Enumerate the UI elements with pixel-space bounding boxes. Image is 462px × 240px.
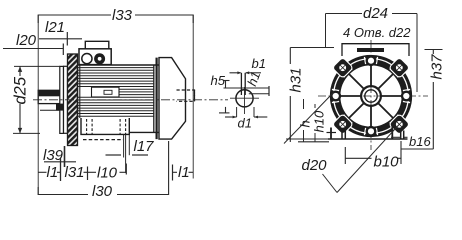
- extension line flange bottom: [64, 146, 66, 167]
- svg-text:b1: b1: [252, 56, 266, 71]
- cardinal hole bosses: [330, 55, 411, 136]
- dimension l33: [38, 7, 193, 24]
- flange plate: [68, 54, 78, 146]
- dimension b16: [391, 134, 433, 149]
- bolt ear top-left: [332, 57, 353, 78]
- h10 bottom tick: [298, 141, 329, 143]
- dimension l30: [38, 141, 168, 200]
- shaft: [38, 90, 63, 110]
- flange spigot (d25): [64, 66, 68, 133]
- extension line right (rear shaft tip): [192, 15, 194, 179]
- svg-text:4 Отв. d22: 4 Отв. d22: [343, 25, 411, 40]
- hub: [361, 86, 381, 106]
- dimension h1: [224, 69, 270, 96]
- svg-text:l31: l31: [65, 164, 85, 181]
- svg-text:h5: h5: [211, 73, 226, 88]
- svg-text:d25: d25: [12, 76, 30, 104]
- svg-text:l33: l33: [112, 7, 133, 24]
- svg-text:l30: l30: [92, 183, 113, 200]
- svg-text:l1: l1: [178, 164, 190, 181]
- rear shaft (hidden, dashed): [177, 90, 195, 101]
- dimension d20 diagonal: [302, 124, 400, 192]
- dimension h: [298, 99, 313, 142]
- dimension l31: [65, 164, 88, 181]
- flange top tab: [357, 48, 384, 52]
- bolt ear bottom-left: [332, 114, 353, 135]
- dimension l10: [88, 164, 127, 182]
- svg-text:d1: d1: [238, 115, 252, 130]
- svg-text:d20: d20: [302, 157, 328, 174]
- flange body ring: [331, 56, 412, 137]
- extension line foot rear edge: [128, 134, 130, 155]
- extension line left (shaft tip): [37, 15, 39, 195]
- svg-text:l20: l20: [16, 32, 37, 49]
- dimension l1 front: [38, 159, 60, 182]
- dimension b10: [345, 141, 401, 171]
- dimension d25: [12, 66, 61, 133]
- bolt ear bottom-right: [389, 114, 410, 135]
- shaft section circle: [230, 87, 259, 114]
- rear bell housing: [159, 58, 186, 140]
- terminal box: [79, 41, 111, 64]
- dimension h37: [425, 50, 446, 150]
- feet front view: [327, 126, 408, 139]
- dimension l21: [39, 19, 82, 46]
- dimension h5: [211, 73, 230, 113]
- foot bottom extension left: [286, 138, 330, 140]
- dimension h31: [288, 48, 335, 143]
- extension line foot rear hole: [125, 134, 127, 173]
- diagonal pointer to left hole: [284, 93, 334, 144]
- bolt ear top-right: [389, 57, 410, 78]
- body cooling fins: [78, 68, 155, 117]
- svg-text:b16: b16: [409, 134, 431, 149]
- spokes: [340, 65, 403, 128]
- nameplate: [92, 87, 120, 97]
- dimension d24: [326, 5, 418, 92]
- svg-text:l17: l17: [134, 138, 155, 155]
- dimension l17: [106, 138, 155, 155]
- svg-text:h37: h37: [429, 54, 446, 80]
- svg-text:d24: d24: [363, 5, 388, 22]
- centerlines front view: [318, 40, 428, 150]
- dimension l1 rear: [173, 164, 194, 181]
- svg-text:b10: b10: [374, 154, 400, 171]
- svg-text:l1: l1: [47, 164, 59, 181]
- dimension l39: [43, 147, 76, 164]
- shaft shoulder collar: [56, 66, 64, 133]
- dimension b1: [230, 56, 266, 74]
- svg-text:l10: l10: [97, 165, 118, 182]
- cardinal holes: [333, 58, 410, 135]
- terminal box behind flange: [342, 44, 409, 56]
- dimension h10: [312, 104, 327, 142]
- dimension l20: [3, 32, 63, 55]
- extension line foot rear hole left: [123, 134, 125, 157]
- motor body outline: [78, 58, 160, 140]
- foot (side view): [81, 118, 129, 140]
- svg-text:h31: h31: [288, 67, 305, 92]
- dimension d1: [225, 107, 267, 130]
- axis centerline: [33, 99, 228, 101]
- key slot: [241, 73, 245, 95]
- svg-text:l21: l21: [45, 19, 65, 36]
